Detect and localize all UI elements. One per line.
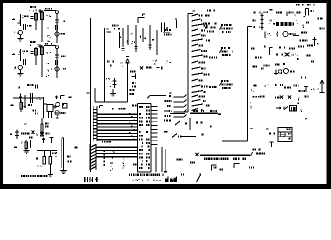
resistor R2b bbox=[41, 45, 44, 59]
label blockD low bbox=[36, 158, 43, 168]
capacitor Cm1 bbox=[121, 49, 124, 51]
label R3 e bbox=[300, 109, 306, 120]
wire blockD drop2 bbox=[48, 151, 53, 178]
label cluster right of bus bbox=[251, 149, 266, 157]
label R2 fill3 bbox=[307, 55, 314, 63]
label R2 fill2 bbox=[264, 63, 286, 66]
cluster R2 a bbox=[276, 53, 294, 57]
label dots harness bbox=[166, 61, 171, 94]
transistor Q1 bbox=[18, 30, 22, 38]
wire output stage 2 bbox=[56, 48, 58, 78]
resistor R44 bbox=[49, 157, 52, 165]
wire v4 bbox=[142, 28, 144, 42]
harness fan wires bbox=[192, 14, 211, 111]
label R1 w bbox=[253, 18, 323, 25]
relay K2 bbox=[63, 104, 68, 109]
label note 1 bbox=[220, 24, 233, 33]
wire bottom bus bbox=[200, 154, 250, 156]
resistor Rm bbox=[110, 78, 116, 88]
ribbon wires upper bbox=[97, 114, 138, 140]
label R3 arrow bbox=[276, 107, 281, 110]
ic U9 table bbox=[278, 128, 292, 142]
terminal block3 bbox=[11, 105, 14, 107]
label R3 fill2 bbox=[260, 96, 264, 98]
amplifier stage 2 bbox=[0, 0, 1, 1]
label mid 5v bbox=[153, 60, 157, 65]
ribbon wire tags bbox=[129, 113, 135, 140]
transistor Q9 bbox=[277, 31, 299, 36]
label R1 d bbox=[300, 40, 308, 42]
wire stub harness bbox=[175, 19, 177, 29]
label VD bbox=[107, 61, 114, 67]
ground R2 bbox=[274, 70, 278, 75]
label R2 c bbox=[253, 66, 265, 70]
harness label3 bbox=[209, 86, 217, 88]
label arrow dots bbox=[121, 62, 123, 67]
capacitor C32 bbox=[24, 95, 26, 100]
resistor R1b bbox=[41, 10, 44, 24]
diode D41 bbox=[40, 133, 44, 137]
label right margin dots bbox=[250, 102, 253, 129]
ground stage 1 bbox=[17, 38, 23, 41]
wire R2 corner bbox=[270, 48, 273, 56]
connector J2 bbox=[161, 23, 168, 33]
label R1 fill3 bbox=[301, 22, 309, 34]
label R3 w bbox=[251, 85, 256, 92]
label mid4 bbox=[112, 106, 142, 110]
cluster R2 b bbox=[255, 57, 261, 59]
transistor Q2 bbox=[18, 65, 22, 73]
wire conn right3 bbox=[164, 149, 166, 172]
wire blockD drop1 bbox=[43, 151, 45, 157]
border frame bbox=[0, 0, 331, 189]
resistor R43 bbox=[43, 157, 46, 165]
ground stage 2 bbox=[17, 73, 23, 76]
transformer T1 bbox=[280, 132, 287, 137]
terminal blockD b bbox=[14, 146, 17, 148]
diode D2 bbox=[55, 55, 65, 57]
amplifier stage 1 bbox=[0, 0, 1, 1]
terminal T bottom bbox=[270, 142, 274, 147]
wire blockD right bbox=[62, 138, 64, 171]
wire output stage 1 bbox=[56, 13, 58, 43]
resistor R1d bbox=[18, 14, 24, 26]
label bottom mid fill bbox=[177, 159, 183, 161]
ic U2 pin numbers left bbox=[139, 106, 143, 169]
node supply stage 2 bbox=[39, 44, 42, 48]
wire v3 bbox=[135, 25, 137, 52]
wire harness spine bbox=[182, 11, 195, 112]
cluster below bus bbox=[164, 118, 211, 138]
resistor R31 bbox=[20, 100, 23, 112]
ground blockD bbox=[24, 151, 30, 154]
transistor Q2b bbox=[55, 67, 66, 71]
capacitor C1b bbox=[24, 24, 32, 30]
node supply stage 1 bbox=[39, 9, 42, 13]
wire blockD rail bbox=[37, 150, 57, 152]
label topmid bbox=[112, 25, 120, 30]
wire v2 bbox=[127, 25, 129, 45]
ground blockD r bbox=[60, 170, 67, 173]
label ribbon mid bbox=[102, 141, 111, 143]
input terminal stage 2 bbox=[12, 54, 15, 56]
diode D9 bbox=[284, 107, 288, 110]
capacitor Cm4 bbox=[126, 55, 129, 57]
node output top stage 1 bbox=[56, 11, 59, 14]
wire bus vertical B bbox=[105, 28, 109, 102]
wire top rail stage 1 bbox=[44, 8, 56, 11]
label R1 fill1 bbox=[264, 11, 302, 13]
label pin bottom bbox=[123, 153, 137, 168]
wire blockD top bbox=[25, 123, 27, 125]
capacitor C2d bbox=[56, 60, 58, 65]
wire v0 bbox=[119, 32, 121, 48]
wire block3 right bbox=[44, 103, 48, 105]
label R3 top bbox=[301, 77, 306, 79]
ic X1 value label bbox=[273, 20, 304, 28]
label r2b bbox=[46, 69, 52, 78]
label eq bottom bbox=[181, 174, 201, 176]
label r1b bbox=[47, 35, 51, 42]
wire arrow mid bbox=[126, 59, 130, 102]
label R2 fill1 bbox=[264, 46, 285, 49]
label note 2 bbox=[220, 47, 233, 56]
wire stub bottom bbox=[172, 178, 176, 183]
wire base stage 2 bbox=[14, 67, 16, 70]
label R4 left bbox=[266, 129, 275, 135]
bracket cluster mid bbox=[130, 71, 136, 95]
label r2a bbox=[46, 52, 51, 64]
capacitor Cm2 bbox=[134, 47, 137, 49]
wire conn right2 bbox=[161, 147, 163, 172]
label 8 bbox=[190, 162, 195, 164]
terminal blockD bbox=[10, 133, 12, 135]
tick column J4 bbox=[104, 150, 105, 166]
resistor R2a value label bbox=[30, 41, 36, 43]
wire diag bottom bbox=[197, 176, 201, 183]
label R2 d bbox=[275, 64, 279, 66]
node arrow blockD bbox=[42, 138, 45, 144]
label note 3 bbox=[220, 80, 233, 89]
label blockD bracket bbox=[29, 137, 33, 139]
terminal blockD r bbox=[75, 146, 78, 148]
wire v5 bbox=[149, 25, 151, 50]
label r1a bbox=[47, 15, 51, 28]
wire block3 b bbox=[24, 100, 26, 108]
resistor R1a value label bbox=[30, 6, 36, 8]
capacitor C2a bbox=[24, 51, 34, 54]
label x bottom bus bbox=[196, 153, 199, 156]
wire collector stage 2 bbox=[41, 59, 43, 77]
label R1 e bbox=[320, 28, 326, 30]
wire conn right1 bbox=[155, 147, 157, 172]
resistor R41 bbox=[41, 118, 49, 135]
wire corner b1 bbox=[212, 165, 217, 171]
capacitor C31 bbox=[19, 94, 22, 104]
label blockD r2 bbox=[67, 156, 72, 163]
input terminal stage 1 bbox=[12, 19, 15, 21]
antenna AT1 bbox=[317, 80, 324, 92]
label half bbox=[28, 104, 32, 106]
node output top stage 2 bbox=[56, 46, 59, 49]
label U2 top bbox=[132, 105, 137, 107]
label D41 bbox=[46, 133, 50, 135]
ground block3 bbox=[56, 115, 59, 118]
wire bus block3 bbox=[13, 97, 44, 99]
ic U8 bbox=[290, 106, 297, 112]
label R1 a bbox=[254, 9, 273, 13]
wire box outline bbox=[222, 27, 252, 142]
harness label2 bbox=[209, 57, 217, 59]
label left harness bbox=[163, 29, 171, 36]
label R1 b bbox=[276, 12, 296, 17]
caption strip bbox=[129, 174, 164, 182]
wire node row stage 2 bbox=[30, 44, 41, 47]
label R1 c bbox=[254, 16, 305, 28]
harness left taps bbox=[165, 95, 187, 118]
wire mid dots bbox=[110, 151, 115, 171]
label 114f bbox=[84, 177, 98, 182]
node block3 plus bbox=[55, 95, 65, 99]
wire stub topmid bbox=[107, 32, 112, 33]
capacitor C1a bbox=[24, 16, 34, 19]
wire blockD mid bbox=[21, 140, 31, 148]
ground mid bbox=[110, 89, 116, 96]
wire bus vertical A bbox=[87, 18, 91, 172]
label R2 dots bbox=[295, 53, 298, 59]
wire corner top mid bbox=[138, 14, 145, 23]
label R1 top bbox=[296, 4, 315, 6]
resistor R2d bbox=[18, 49, 23, 61]
label and bbox=[164, 171, 177, 182]
label blockD row bbox=[21, 131, 38, 136]
transistor Q32 bbox=[55, 111, 66, 115]
label mid marks bbox=[120, 33, 154, 44]
label mid left2 bbox=[106, 78, 110, 80]
diode D1 bbox=[55, 20, 65, 22]
harness cluster a bbox=[203, 23, 217, 33]
capacitor C34 bbox=[33, 110, 38, 115]
transistor Q31 bbox=[56, 102, 64, 106]
label c33 bbox=[36, 97, 40, 100]
label R3 fill1 bbox=[294, 85, 299, 87]
wire hook mid bbox=[147, 96, 166, 99]
capacitor C1d bbox=[56, 25, 58, 30]
ic U2 pin numbers right bbox=[146, 106, 150, 169]
ribbon wires lower bbox=[97, 147, 138, 157]
connector Y1 bbox=[313, 37, 319, 46]
wire corner block3 bbox=[43, 97, 45, 118]
label R3 c bbox=[299, 90, 307, 92]
ic U5 ladder bbox=[261, 13, 264, 30]
wire top rail stage 2 bbox=[44, 43, 56, 46]
label bottom text left bbox=[21, 175, 48, 177]
label R2 top bbox=[289, 45, 313, 50]
wire bus horizontal bbox=[170, 110, 218, 114]
varistor RV4 bbox=[15, 130, 19, 140]
label R1 fill2 bbox=[270, 20, 273, 22]
label dash left of box bbox=[218, 114, 221, 115]
transistor Q10 bbox=[278, 69, 294, 75]
wire v6 bbox=[156, 30, 158, 55]
relay K1 bbox=[47, 105, 57, 119]
capacitor Cm3 bbox=[148, 45, 151, 47]
cluster R3 d bbox=[253, 96, 310, 104]
connector P1 bbox=[306, 9, 314, 16]
wire corner junction bbox=[95, 88, 128, 102]
capacitor C2b bbox=[24, 59, 26, 65]
label blockD r1 bbox=[55, 152, 57, 157]
ic U2 pins right bbox=[151, 107, 158, 145]
wire node row stage 1 bbox=[29, 10, 41, 12]
label R3 b bbox=[264, 85, 268, 87]
label dash bottom right bbox=[249, 167, 254, 169]
resistor R42 bbox=[25, 140, 28, 150]
wire base stage 1 bbox=[14, 32, 19, 34]
label 2 bottom bbox=[220, 169, 224, 171]
transistor Q1b bbox=[55, 32, 66, 36]
capacitor C33 bbox=[31, 93, 33, 103]
label block3 top bbox=[19, 84, 38, 89]
resistor R1c bbox=[35, 12, 38, 30]
terminal T blockD bbox=[50, 138, 54, 144]
wire corner b2 bbox=[234, 164, 240, 169]
terminal T right col bbox=[304, 87, 315, 93]
label under bus bbox=[204, 158, 246, 160]
connector J3 ladder bbox=[93, 106, 103, 142]
label R2 w bbox=[251, 48, 254, 50]
label 92 bottom bbox=[214, 167, 217, 169]
resistor R2c bbox=[35, 47, 38, 65]
label mid right1 bbox=[140, 66, 162, 69]
terminal block3 r bbox=[69, 96, 72, 98]
bracket R1 bbox=[265, 32, 271, 39]
label CX bbox=[52, 152, 57, 154]
ic U2 body bbox=[138, 104, 152, 173]
cluster R3 a bbox=[275, 84, 291, 88]
wire v1 bbox=[122, 28, 124, 47]
connector J4 hatched body bbox=[90, 144, 96, 170]
wire collector stage 1 bbox=[41, 24, 43, 42]
harness labels top bbox=[205, 10, 215, 17]
